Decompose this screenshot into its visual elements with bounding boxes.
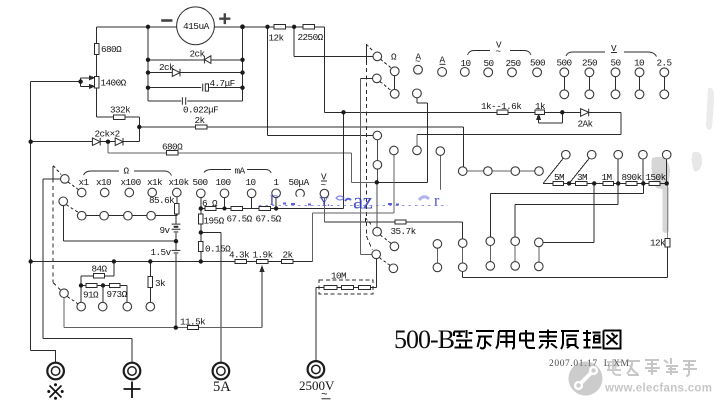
svg-text:680Ω: 680Ω xyxy=(101,44,122,55)
svg-text:x10k: x10k xyxy=(169,177,190,188)
ohm row2 contacts xyxy=(77,211,86,220)
char biao xyxy=(539,330,557,349)
resistor 0.15 (vertical) xyxy=(198,241,203,251)
wire: AC deck contact3 stub cut by watermark xyxy=(439,155,441,191)
brace mA xyxy=(204,170,271,174)
wire: mA resistor chain row xyxy=(201,208,344,210)
rotary axis arrow left deck xyxy=(52,166,54,179)
resistor 2k bottom xyxy=(282,259,294,263)
resistor 67.5 a xyxy=(231,206,243,210)
svg-text:3k: 3k xyxy=(155,278,166,289)
terminal 2500V xyxy=(308,361,325,378)
meter minus sign xyxy=(161,19,172,22)
wire: 5M-150k chain row xyxy=(543,182,667,184)
wire: 890k junction loop to pair3 xyxy=(490,184,643,237)
wire: dot294 down and to top wiper xyxy=(294,27,373,57)
wire: bottom AC bus to 12k xyxy=(463,247,668,278)
wire: 2500V riser and 10M chain xyxy=(316,259,377,361)
wiper middle deck 1 xyxy=(373,131,382,140)
rotary axis dashed left xyxy=(52,179,54,283)
watermark gray swoosh near 150k xyxy=(652,88,715,233)
char li xyxy=(583,330,602,348)
wire: loop drop into AC deck contact xyxy=(416,135,418,147)
component rectangles xyxy=(86,25,670,330)
svg-text:4.3k: 4.3k xyxy=(229,250,250,261)
resistor 890k xyxy=(626,181,637,185)
resistor 6ohm xyxy=(205,206,216,210)
wire: middle wiper chain links xyxy=(376,140,379,228)
wiper middle deck 2 xyxy=(373,161,382,170)
wire: 12k top to 150k junction xyxy=(667,184,669,239)
contact ohm-adj top xyxy=(390,67,399,76)
ohm-range contacts 5M row xyxy=(562,150,571,159)
pair contacts mid bottom xyxy=(433,240,442,249)
blue watermark fragments xyxy=(259,189,448,214)
resistor 973 xyxy=(109,283,120,287)
wire: top-left corner feed to 1400 pot arrows xyxy=(31,81,81,83)
svg-text:5A: 5A xyxy=(213,379,231,395)
wire: 2k row long xyxy=(139,126,463,128)
svg-text:12k: 12k xyxy=(269,33,285,44)
svg-text:680Ω: 680Ω xyxy=(162,142,183,153)
svg-text:500: 500 xyxy=(557,58,572,69)
resistor 5M xyxy=(553,181,564,185)
resistor 12k xyxy=(274,25,286,29)
wire: row of four linked contacts y171 xyxy=(467,170,535,172)
svg-text:www.elecfans.com: www.elecfans.com xyxy=(604,383,712,395)
contact 50uA xyxy=(296,189,305,198)
svg-text:1.9k: 1.9k xyxy=(253,250,274,261)
wire: verticals 1M 890k 150k contacts xyxy=(618,159,667,183)
resistor 10M c xyxy=(358,285,370,289)
svg-text:10: 10 xyxy=(246,177,256,188)
wire: 35.7k drop through pair2 xyxy=(462,222,464,278)
wire: 680 row2 drop to wiper bus dot xyxy=(352,153,377,183)
battery 9v xyxy=(172,224,181,229)
resistor 332k xyxy=(113,115,125,119)
wire: A~ lower contact jog to middle wiper chain xyxy=(377,98,428,183)
wire: 680/1400 column xyxy=(96,27,98,117)
resistor 4.3k xyxy=(235,259,247,263)
resistor 680 row2 xyxy=(167,151,179,155)
contact Vac 10 xyxy=(460,68,469,77)
svg-text:50μA: 50μA xyxy=(289,177,310,188)
svg-text:1k: 1k xyxy=(535,101,546,112)
svg-text:100: 100 xyxy=(216,177,231,188)
contact Vdc 2.5 pair xyxy=(660,68,669,77)
resistor 3k (vertical) xyxy=(148,276,153,287)
svg-text:5M: 5M xyxy=(554,172,564,183)
left deck wiper 1 xyxy=(61,175,70,184)
svg-text:Y.: Y. xyxy=(319,195,330,210)
terminal 5A xyxy=(213,363,230,380)
resistor 1400 pot (vertical) xyxy=(94,77,99,88)
svg-text:500-B: 500-B xyxy=(394,325,455,354)
wire: 2ck diode row B xyxy=(148,72,243,74)
wire: 3k column xyxy=(149,262,151,303)
wire: 680 row2 from diode junction xyxy=(108,142,352,153)
svg-text:1M: 1M xyxy=(602,172,612,183)
wire: AC wiper bus vertical x360.4 xyxy=(359,78,361,254)
svg-text:0.15Ω: 0.15Ω xyxy=(205,244,231,255)
left deck wiper 2 xyxy=(59,197,68,206)
terminal label X (reference mark) xyxy=(47,383,63,399)
svg-text:x1k: x1k xyxy=(147,177,163,188)
terminal X xyxy=(47,361,324,379)
contact Vac 500 xyxy=(533,68,542,77)
wire: Vac contact drop to 35.7k row xyxy=(323,198,325,222)
svg-text:973Ω: 973Ω xyxy=(107,289,128,300)
contact Vac select xyxy=(320,189,329,198)
svg-text:500: 500 xyxy=(530,58,545,69)
capacitor 0.022uF xyxy=(181,98,187,104)
elecfans watermark xyxy=(569,358,713,396)
svg-text:1400Ω: 1400Ω xyxy=(101,78,127,89)
wire: dot267 down and to middle wiper xyxy=(268,27,374,136)
resistor 10M a xyxy=(324,285,337,289)
svg-text:11.5k: 11.5k xyxy=(180,317,206,328)
svg-text:250: 250 xyxy=(506,58,521,69)
arrowhead of 1k pot xyxy=(537,115,541,120)
dashed diagonal left wiper1 to x1 xyxy=(68,182,79,190)
fake glyphs dianzifashaoyou xyxy=(607,358,697,376)
contact AC deck 1 xyxy=(390,146,399,155)
svg-text:9v: 9v xyxy=(160,225,171,236)
wire: 1.9k pot arrow riser from 11.5k row xyxy=(261,271,263,328)
svg-text:az: az xyxy=(353,189,373,214)
svg-text:2ck: 2ck xyxy=(190,49,206,60)
wire: top wiper2 to bus xyxy=(360,77,372,79)
wire: left main vertical rail xyxy=(30,82,32,351)
char yong xyxy=(496,331,514,349)
contact Vdc 50 pair xyxy=(611,68,620,77)
svg-text:2k: 2k xyxy=(195,115,206,126)
left deck wiper 3 xyxy=(60,289,69,298)
contact Vac 50 xyxy=(484,68,493,77)
wire: ohm deck pair link xyxy=(394,76,396,90)
svg-text:12k: 12k xyxy=(650,238,666,249)
dashed box 10M xyxy=(319,280,373,294)
linked contacts row y171 xyxy=(458,167,467,176)
resistor 2k top xyxy=(195,125,207,129)
wire: 4.7uF row C xyxy=(148,87,243,89)
contact Vac 250 xyxy=(508,68,517,77)
svg-text:50: 50 xyxy=(611,57,621,68)
resistor 680 (vertical) xyxy=(94,44,99,55)
svg-text:4.7μF: 4.7μF xyxy=(210,78,235,89)
braces Vdc xyxy=(566,52,657,57)
char wan xyxy=(476,331,494,349)
wire: 2k row drop to contact row xyxy=(463,127,465,167)
svg-text:2Ak: 2Ak xyxy=(578,119,594,130)
wire: top row meter line xyxy=(97,26,325,28)
wire: AC deck contact1 drop to bottom row riser xyxy=(312,155,394,262)
svg-text:10: 10 xyxy=(634,57,644,68)
svg-text:890k: 890k xyxy=(622,172,643,183)
svg-text:2k: 2k xyxy=(283,250,294,261)
dashed diagonal wiperA to contact xyxy=(380,235,391,244)
svg-text:195Ω: 195Ω xyxy=(204,216,225,227)
dashed diagonal wiper2 to ohm lower contact xyxy=(380,82,392,91)
capacitor 4.7uF xyxy=(201,85,209,91)
resistor 91 xyxy=(86,283,97,287)
wire: rectifier output row y112 xyxy=(325,111,621,113)
svg-text:85.6k: 85.6k xyxy=(149,195,175,206)
char dian xyxy=(520,330,535,348)
wire: 35.7k row xyxy=(324,221,462,223)
wire: ohm wiper3 drop xyxy=(63,298,65,328)
svg-text:x10: x10 xyxy=(96,177,111,188)
svg-text:415uA: 415uA xyxy=(183,21,210,32)
diode 2ck row A (points left) xyxy=(92,56,588,253)
wire: 5A branch xyxy=(201,233,221,363)
wire: ohm wiper2 drop and row to battery xyxy=(64,206,177,242)
contact A~ lower xyxy=(413,89,422,98)
contact Vdc 500 pair xyxy=(560,68,569,77)
resistor 10M b xyxy=(341,285,353,289)
svg-text:~: ~ xyxy=(321,390,328,402)
svg-text:Γ: Γ xyxy=(270,193,279,209)
resistor 12k right (vertical) xyxy=(665,238,670,247)
terminal plus xyxy=(124,363,141,380)
resistor 84 xyxy=(94,274,105,278)
switch contact circles xyxy=(59,52,671,311)
svg-text:2ck: 2ck xyxy=(159,62,175,73)
contact ohm-adj bottom xyxy=(390,89,399,98)
contact from wiperB xyxy=(389,264,398,273)
resistor 150k xyxy=(649,181,660,185)
svg-text:2.5: 2.5 xyxy=(657,57,672,68)
resistor 85.6k (vertical) xyxy=(175,203,180,214)
wire: mA chain feed column x343.5 xyxy=(343,112,345,208)
svg-text:250: 250 xyxy=(582,58,597,69)
resistor 195 (vertical) xyxy=(198,214,203,224)
svg-text:6 Ω: 6 Ω xyxy=(202,198,218,209)
svg-text:2ck×2: 2ck×2 xyxy=(95,129,120,140)
contact A dc xyxy=(438,68,447,77)
wiper lower deck B xyxy=(372,250,381,259)
ohm row3 contacts xyxy=(77,302,86,311)
wire: 1M junction loop to pair4 xyxy=(515,184,618,237)
meter plus sign xyxy=(219,13,230,24)
wire: junction column 332k/2k/2ckx2 xyxy=(138,117,140,142)
svg-text:2250Ω: 2250Ω xyxy=(298,32,324,43)
resistor 1k pot xyxy=(535,110,544,114)
resistor 11.5k xyxy=(188,326,199,330)
wiper top deck 2 xyxy=(373,74,382,83)
svg-text:2500V: 2500V xyxy=(299,378,335,393)
svg-text:1k--1.6k: 1k--1.6k xyxy=(481,101,522,112)
diode 2Ak xyxy=(581,109,589,117)
wire: pair link jumpers xyxy=(437,246,538,264)
char yuan xyxy=(561,331,579,349)
char xing xyxy=(454,330,473,348)
resistor 3M xyxy=(576,181,587,185)
white patch watermark erasure center xyxy=(288,190,447,208)
wire: rectifier rows column x242.5 xyxy=(242,27,244,101)
mA contacts 500 100 10 1 xyxy=(197,189,206,198)
svg-text:35.7k: 35.7k xyxy=(391,226,417,237)
resistor 35.7k xyxy=(395,220,406,224)
resistor 1k--1.6k xyxy=(497,110,508,114)
contact AC deck 2 xyxy=(413,146,422,155)
wire: bottom wiperB to bus xyxy=(360,253,372,255)
wire: 2ck diode row A xyxy=(148,59,243,61)
diode 2ck row B (points right) xyxy=(172,69,180,77)
wire: 84ohm block risers xyxy=(81,262,114,303)
wiper lower deck A xyxy=(373,227,382,236)
wire: bottom resistor row xyxy=(31,261,313,263)
wire: 3M junction drop to pair5 xyxy=(543,184,594,243)
char tu xyxy=(604,331,621,349)
wire: 91/973 row xyxy=(81,286,127,303)
potentiometer arrows into 1400ohm xyxy=(81,78,90,87)
diode 2ckx2 a xyxy=(92,138,100,146)
svg-text:67.5Ω: 67.5Ω xyxy=(227,214,253,225)
dashed diagonal wiperB to contact xyxy=(379,258,390,266)
wire: 0.022uF row D xyxy=(148,100,243,102)
svg-text:x1: x1 xyxy=(79,177,90,188)
svg-text:67.5Ω: 67.5Ω xyxy=(256,214,282,225)
contact Vdc 10 pair xyxy=(635,68,644,77)
wire: mA contact drops xyxy=(201,198,276,209)
svg-text:91Ω: 91Ω xyxy=(83,290,99,301)
svg-text:0.022μF: 0.022μF xyxy=(183,105,218,116)
wire: rail to X terminal xyxy=(31,351,56,363)
svg-text:1.5v: 1.5v xyxy=(151,247,172,258)
brace Vac xyxy=(468,51,532,56)
svg-text:500: 500 xyxy=(193,177,208,188)
svg-text:150k: 150k xyxy=(646,172,667,183)
resistor 1.9k pot xyxy=(256,259,268,263)
rotary axis arrow top right deck xyxy=(365,44,367,61)
dashed diagonal left wiper3 to row3 xyxy=(67,297,78,304)
contact from wiperA xyxy=(390,242,399,251)
wire: 2ckx2 diode row xyxy=(31,141,140,143)
dashed diagonal left wiper2 to row2 xyxy=(66,205,78,213)
title CJK glyph blocks xyxy=(454,330,621,350)
svg-text:84Ω: 84Ω xyxy=(92,264,108,275)
resistor 67.5 b xyxy=(259,206,271,210)
wiper arrow on 35.7k row xyxy=(365,218,367,222)
wiper top deck 1 xyxy=(373,52,382,61)
wire: ohm wiper1 feed to plus terminal xyxy=(43,179,132,362)
wire: 195ohm 0.15ohm column xyxy=(200,209,202,262)
rotary axis dashed right xyxy=(365,61,367,218)
svg-text:mA: mA xyxy=(235,166,246,177)
contact AC deck 3 xyxy=(436,147,445,156)
wire: x10k drop to 85.6k xyxy=(176,197,178,204)
svg-text:x100: x100 xyxy=(121,177,141,188)
wire: ohm row2 links xyxy=(86,214,177,216)
diode 2ckx2 b xyxy=(115,138,123,146)
svg-text:3M: 3M xyxy=(577,172,587,183)
contact Vdc 250 pair xyxy=(585,68,594,77)
wire: 5M chain diagonal feeds xyxy=(543,158,589,183)
svg-text:332k: 332k xyxy=(110,105,131,116)
resistor 2250 xyxy=(303,25,315,29)
wire: 85.6k to 9v battery to junction xyxy=(175,214,177,328)
meter 415uA xyxy=(177,7,215,45)
wire: 1k pot feedback xyxy=(539,112,563,123)
resistor 1M xyxy=(603,181,614,185)
dashed diagonal wiper1 to ohm contact xyxy=(380,59,391,68)
svg-text:50: 50 xyxy=(484,58,494,69)
battery 1.5v xyxy=(172,249,181,251)
wire: DCV pair link jumpers xyxy=(564,77,664,90)
svg-text:10: 10 xyxy=(461,58,471,69)
wire: 11.5k row xyxy=(64,327,262,329)
wire: 2Ak loop right side xyxy=(417,112,621,134)
terminal label plus xyxy=(124,382,141,399)
svg-text:10M: 10M xyxy=(331,271,346,282)
contact A~ xyxy=(414,65,423,74)
wire: rectifier rows column x148 xyxy=(147,27,149,101)
brace omega xyxy=(84,171,172,176)
ohm multiplier contacts x1-x10k xyxy=(77,188,86,197)
wire: 2250 right end down xyxy=(324,27,326,113)
wire: 332k row xyxy=(97,116,140,118)
